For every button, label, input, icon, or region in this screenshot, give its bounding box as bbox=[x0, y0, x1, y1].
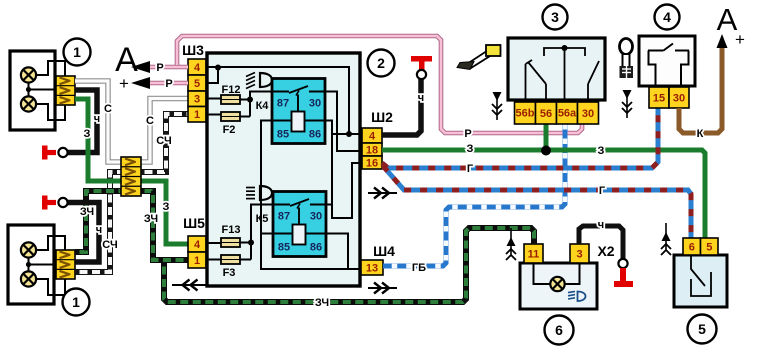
low beam icon (blue) bbox=[578, 292, 586, 302]
svg-text:+: + bbox=[119, 74, 129, 93]
continuation arrow right of Sh2 bbox=[368, 192, 397, 194]
headlight block 1 (bottom left) bbox=[8, 225, 54, 304]
wire ZC green-black: bottom run to instrument cluster bbox=[164, 228, 534, 302]
wire Z green: top headlight to junction row3 bbox=[75, 99, 122, 181]
svg-text:Ш4: Ш4 bbox=[373, 243, 395, 259]
switch 5 internals bbox=[691, 255, 705, 286]
svg-text:4: 4 bbox=[194, 239, 201, 251]
ignition internals (T-contact symbol) bbox=[648, 50, 664, 52]
svg-text:87: 87 bbox=[277, 98, 289, 110]
switch 5 box bbox=[674, 255, 727, 307]
relay K5 bbox=[273, 192, 326, 257]
wire G blue-red: Sh2-16 branch to switch 5 pin 6 bbox=[383, 166, 691, 240]
wire G blue-red: Sh2-16 to ignition switch pin 15 bbox=[382, 107, 658, 168]
svg-text:F2: F2 bbox=[223, 124, 236, 136]
svg-text:13: 13 bbox=[366, 262, 378, 274]
feathered arrow left of pin 11 bbox=[510, 228, 512, 255]
svg-text:15: 15 bbox=[653, 92, 665, 104]
column lever icon bbox=[467, 52, 490, 69]
ground top-left bbox=[42, 146, 48, 160]
pin 11 bbox=[524, 244, 543, 263]
svg-text:Г: Г bbox=[599, 185, 606, 197]
Sh2 pin 4 bbox=[362, 128, 382, 143]
circle 2 bbox=[368, 50, 395, 77]
svg-text:18: 18 bbox=[366, 144, 378, 156]
svg-text:ГБ: ГБ bbox=[412, 262, 426, 274]
ground symbol top (red T) bbox=[411, 56, 432, 62]
svg-text:Ш5: Ш5 bbox=[183, 215, 205, 231]
svg-text:30: 30 bbox=[310, 211, 322, 223]
continuation arrow below Sh5 bbox=[172, 284, 206, 286]
low beam icon K4 bbox=[260, 73, 272, 87]
lamp low beam top-left bbox=[21, 96, 36, 111]
svg-text:5: 5 bbox=[698, 321, 706, 337]
svg-text:3: 3 bbox=[551, 9, 559, 25]
svg-text:З: З bbox=[84, 128, 91, 140]
circle 6 bbox=[545, 316, 574, 345]
svg-text:30: 30 bbox=[582, 108, 594, 120]
svg-text:56a: 56a bbox=[558, 108, 577, 120]
svg-text:З: З bbox=[467, 143, 474, 155]
wire Z green drop from switch 3 pin 56 bbox=[544, 124, 549, 150]
connector X of headlight 1 bottom bbox=[56, 250, 75, 279]
lamp high beam top-left bbox=[21, 67, 36, 82]
feathered arrow left of ignition bbox=[626, 90, 628, 118]
svg-text:З: З bbox=[598, 145, 605, 157]
svg-text:3: 3 bbox=[576, 248, 582, 260]
Sh5 pin 1 bbox=[188, 252, 206, 268]
pin 5 bbox=[701, 238, 719, 255]
mounting block 2 outline bbox=[207, 53, 360, 286]
svg-text:30: 30 bbox=[673, 92, 685, 104]
svg-text:К5: К5 bbox=[256, 213, 269, 225]
svg-text:30: 30 bbox=[309, 98, 321, 110]
feathered arrow below lever bbox=[496, 92, 498, 120]
junction connector (front harness) bbox=[121, 157, 141, 196]
svg-text:1: 1 bbox=[194, 255, 200, 267]
internal wire K4 coil / K5-30 to Sh2-16 bbox=[325, 121, 362, 219]
svg-text:F13: F13 bbox=[222, 224, 241, 236]
svg-text:СЧ: СЧ bbox=[102, 239, 117, 251]
svg-text:4: 4 bbox=[194, 62, 201, 74]
svg-text:ЗЧ: ЗЧ bbox=[315, 297, 329, 309]
internal leads headlight 1 bottom bbox=[28, 258, 30, 272]
svg-text:2: 2 bbox=[377, 55, 385, 71]
fuse F3 bbox=[221, 255, 240, 264]
svg-text:К: К bbox=[697, 128, 704, 140]
svg-text:X2: X2 bbox=[597, 243, 614, 259]
svg-text:56: 56 bbox=[540, 108, 552, 120]
svg-text:1: 1 bbox=[73, 44, 81, 60]
wire SC gray-black: junction row2 to Sh3 pin1 bbox=[140, 114, 188, 172]
Sh3 pin 3 bbox=[188, 91, 206, 107]
svg-text:Ш2: Ш2 bbox=[371, 109, 393, 125]
wire P pink arrow to sheet A (pin5) bbox=[150, 81, 188, 86]
switch 3 pin 56b bbox=[515, 102, 536, 124]
circle 1 (top) bbox=[64, 39, 91, 66]
high beam icon K5 bbox=[260, 186, 272, 200]
svg-text:1: 1 bbox=[72, 294, 80, 310]
lamp high beam bottom-left bbox=[21, 242, 36, 257]
svg-text:Р: Р bbox=[464, 128, 471, 140]
circle 5 bbox=[688, 315, 717, 344]
internal wire K4-85 / K5-85 to Sh4-13 bbox=[261, 121, 361, 270]
connector X of headlight 1 top bbox=[56, 76, 75, 105]
ignition pin 30 bbox=[669, 87, 689, 108]
svg-text:ч: ч bbox=[94, 113, 100, 125]
svg-text:56b: 56b bbox=[516, 108, 535, 120]
svg-text:З: З bbox=[163, 201, 170, 213]
key icon bbox=[620, 39, 633, 55]
ignition switch box bbox=[639, 36, 695, 86]
wire ZC green-black: bottom headlight to junction row4 bbox=[75, 191, 122, 252]
svg-text:86: 86 bbox=[310, 242, 322, 254]
lamp low beam bottom-left bbox=[21, 271, 36, 286]
switch 3 pin 56 bbox=[536, 102, 557, 124]
svg-text:ч: ч bbox=[96, 224, 102, 236]
instrument cluster box bbox=[520, 263, 597, 309]
svg-text:6: 6 bbox=[555, 322, 563, 338]
wire P pink arrow to sheet A (pin4) bbox=[150, 65, 188, 70]
internal feed rail from Sh3-4/5 bbox=[218, 67, 349, 134]
internal wire K4-30 to Sh2-18 bbox=[325, 92, 362, 152]
svg-text:ч: ч bbox=[598, 219, 604, 231]
svg-text:1: 1 bbox=[194, 109, 200, 121]
svg-text:К4: К4 bbox=[256, 100, 270, 112]
svg-text:F3: F3 bbox=[223, 267, 236, 279]
cluster internals bbox=[534, 263, 551, 284]
pin 3 bbox=[570, 244, 589, 263]
svg-text:11: 11 bbox=[528, 248, 540, 260]
circle 4 bbox=[655, 5, 680, 30]
headlight block 1 (top left) bbox=[10, 51, 55, 130]
wire Z green: junction row3 to Sh5 pin4 bbox=[140, 181, 188, 244]
internal wire K5 coil to Sh4-13 line bbox=[326, 234, 348, 270]
svg-text:4: 4 bbox=[663, 9, 671, 25]
circle 3 bbox=[543, 5, 568, 30]
svg-text:Г: Г bbox=[467, 163, 474, 175]
wire P pink: Sh3 pin4 over the top to switch 3 pin30 bbox=[177, 36, 582, 133]
ground bottom-left bbox=[42, 196, 48, 210]
internal wire to Sh2-4 with junction bbox=[332, 133, 362, 135]
Sh2 pin 16 bbox=[362, 156, 382, 169]
svg-text:Р: Р bbox=[165, 78, 172, 90]
svg-text:Р: Р bbox=[156, 62, 163, 74]
svg-text:5: 5 bbox=[706, 241, 712, 253]
switch 3 pin 56a bbox=[557, 102, 578, 124]
Sh3 pin 1 bbox=[188, 107, 206, 123]
Sh2 pin 18 bbox=[362, 143, 382, 156]
svg-text:ЗЧ: ЗЧ bbox=[144, 213, 158, 225]
Sh3 pin 5 bbox=[188, 75, 206, 91]
wire Ch black: top headlight to ground bbox=[67, 90, 97, 153]
circle 1 (bottom) bbox=[63, 289, 90, 316]
leads fuses bottom bbox=[206, 205, 273, 260]
svg-text:85: 85 bbox=[278, 242, 290, 254]
leads fuses top bbox=[206, 92, 272, 117]
fuse F2 bbox=[221, 112, 240, 121]
wire GB blue-white: switch3 56a to Sh4-13 bbox=[383, 124, 565, 266]
svg-text:ч: ч bbox=[418, 92, 424, 104]
svg-text:Ш3: Ш3 bbox=[182, 42, 204, 58]
ground X2 (red T down) bbox=[618, 259, 627, 268]
wire C gray: top headlight to junction row1 bbox=[75, 81, 122, 162]
svg-text:5: 5 bbox=[194, 78, 200, 90]
switch 3 internals bbox=[544, 48, 585, 56]
svg-text:86: 86 bbox=[309, 129, 321, 141]
internal leads headlight 1 top bbox=[28, 83, 30, 97]
wire ZC green-black: junction row4 to Sh5 pin1 bbox=[140, 191, 188, 260]
pin 6 bbox=[683, 238, 701, 255]
indicator lamp bbox=[550, 277, 564, 291]
svg-text:С: С bbox=[104, 103, 112, 115]
Sh4 pin 13 bbox=[361, 260, 383, 275]
wire Ch black: bottom headlight to ground bbox=[67, 203, 99, 263]
svg-text:СЧ: СЧ bbox=[156, 135, 171, 147]
switch 3 pin 30 bbox=[578, 102, 599, 124]
ignition pin 15 bbox=[649, 87, 669, 108]
relay K4 bbox=[272, 79, 325, 144]
internal tie Sh3 pins 4,5 bbox=[206, 67, 218, 83]
svg-text:87: 87 bbox=[278, 211, 290, 223]
svg-text:С: С bbox=[146, 115, 154, 127]
feathered arrow left of switch 5 bbox=[665, 223, 667, 250]
switch 3 box bbox=[508, 38, 605, 100]
wire Z green: Sh2-18 to switch 5 pin 5 bbox=[382, 150, 705, 240]
svg-text:85: 85 bbox=[277, 129, 289, 141]
svg-text:6: 6 bbox=[689, 241, 695, 253]
wire Ch black: cluster pin 3 to ground bbox=[579, 226, 623, 259]
wire SC gray-black: bottom headlight to junction row2 bbox=[75, 172, 122, 272]
svg-text:ЗЧ: ЗЧ bbox=[80, 206, 94, 218]
wire K brown: ignition 30 to +A bbox=[679, 47, 722, 133]
svg-text:+: + bbox=[735, 30, 745, 49]
arrow to A + (right) bbox=[717, 34, 728, 48]
svg-text:16: 16 bbox=[366, 157, 378, 169]
wire C gray: junction row1 to Sh3 pin3 bbox=[140, 99, 188, 163]
continuation arrow right of Sh4 bbox=[368, 287, 397, 289]
Sh5 pin 4 bbox=[188, 236, 206, 252]
wire Ch black: Sh2-4 to body ground bbox=[382, 79, 421, 135]
Sh3 pin 4 bbox=[188, 59, 206, 75]
svg-text:3: 3 bbox=[194, 94, 200, 106]
svg-text:4: 4 bbox=[369, 130, 376, 142]
